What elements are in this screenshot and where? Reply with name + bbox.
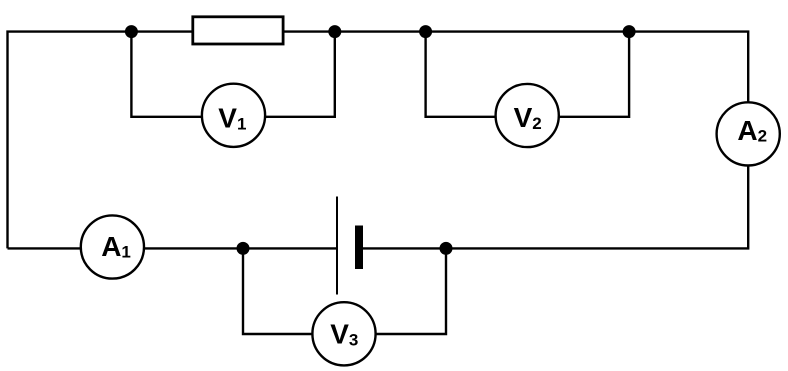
- voltmeter V2: [496, 84, 559, 147]
- battery positive plate (long): [336, 197, 338, 295]
- node junction dot top 4: [623, 25, 636, 38]
- voltmeter V3: [312, 302, 375, 365]
- wire V2 branch left: [426, 32, 497, 117]
- ammeter A1: [81, 215, 144, 278]
- node junction dot top 2: [328, 25, 341, 38]
- node junction dot bottom 1: [237, 242, 250, 255]
- wire V3 branch left: [243, 248, 314, 334]
- node junction dot top 1: [125, 25, 138, 38]
- wire A1 left to corner: [8, 247, 82, 249]
- node junction dot top 3: [419, 25, 432, 38]
- battery negative plate (short thick): [355, 226, 363, 270]
- wire left side + top segment to resistor: [8, 32, 194, 249]
- wire V1 branch right: [265, 32, 335, 117]
- wire V1 branch left: [131, 32, 202, 117]
- voltmeter V1: [202, 84, 265, 147]
- node junction dot bottom 2: [440, 242, 453, 255]
- wire top segment from resistor to right corner down to A2: [283, 32, 749, 103]
- wire V2 branch right: [558, 32, 629, 117]
- wire battery left to A1: [144, 247, 338, 249]
- ammeter A2: [717, 102, 780, 165]
- wire V3 branch right: [375, 248, 447, 334]
- wire right side below A2 to bottom corner and left to battery: [363, 165, 748, 248]
- resistor R1: [193, 17, 283, 44]
